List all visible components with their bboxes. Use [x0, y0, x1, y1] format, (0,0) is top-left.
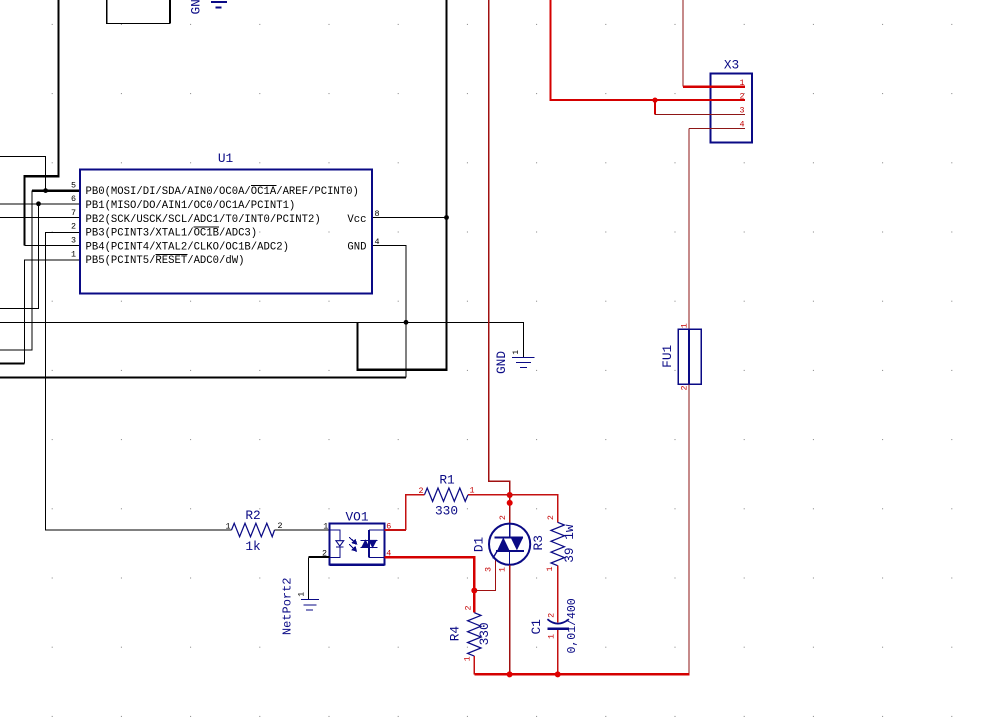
wire thick rail: [0, 376, 406, 378]
wire thick exit left: [0, 362, 24, 364]
junction node X3.2: [652, 98, 657, 103]
svg-text:GND: GND: [189, 0, 204, 15]
wire VO1 pin6: [385, 529, 406, 531]
wire X3 pin1: [682, 0, 684, 87]
resistor R3: [531, 515, 577, 571]
wire X3 pin3: [654, 100, 656, 114]
svg-text:8: 8: [375, 209, 380, 219]
svg-text:GND: GND: [494, 351, 509, 374]
wire U1 Vcc pin: [372, 217, 447, 219]
svg-text:2: 2: [418, 486, 423, 496]
wire D1 anode down: [509, 565, 511, 675]
svg-text:5: 5: [71, 180, 76, 190]
wire pin5 vertical down: [0, 191, 32, 350]
wire fuse to rail: [688, 384, 690, 674]
wire pin3 (PB4): [24, 245, 80, 247]
junction node Vcc: [444, 215, 449, 220]
svg-text:PB0(MOSI/DI/SDA/AIN0/OC0A/OC1A: PB0(MOSI/DI/SDA/AIN0/OC0A/OC1A/AREF/PCIN…: [86, 186, 359, 198]
svg-text:GND: GND: [347, 241, 366, 253]
wire pin2 (PB3) to R2: [46, 232, 232, 530]
wire thick vertical top-left: [24, 0, 58, 246]
svg-text:330: 330: [477, 622, 492, 645]
wire thick right vertical: [357, 0, 446, 370]
svg-text:PB3(PCINT3/XTAL1/OC1B/ADC3): PB3(PCINT3/XTAL1/OC1B/ADC3): [86, 228, 258, 240]
fuse FU1: [660, 323, 701, 390]
svg-text:2: 2: [498, 515, 508, 520]
junction node D1 anode: [507, 500, 513, 506]
capacitor C1: [529, 598, 579, 653]
svg-text:R2: R2: [245, 508, 260, 523]
svg-text:1: 1: [225, 521, 230, 531]
svg-text:3: 3: [71, 236, 76, 246]
resistor R4: [448, 605, 492, 661]
light arrows: [349, 537, 357, 551]
svg-text:1: 1: [470, 486, 475, 496]
svg-text:R4: R4: [448, 626, 463, 642]
wire R4 to rail: [473, 656, 475, 674]
wire U1 GND pin down: [372, 246, 406, 378]
svg-text:1: 1: [680, 323, 690, 328]
svg-text:VO1: VO1: [345, 510, 368, 525]
svg-text:2: 2: [463, 605, 473, 610]
svg-text:7: 7: [71, 208, 76, 218]
svg-text:C1: C1: [529, 619, 544, 635]
junction node C1-rail: [555, 671, 561, 677]
junction node D1-rail: [507, 671, 513, 677]
svg-text:6: 6: [71, 194, 76, 204]
svg-text:3: 3: [484, 567, 494, 572]
wire bottom rail: [474, 673, 689, 675]
svg-text:1: 1: [547, 634, 557, 639]
wire red main vertical: [489, 0, 510, 523]
svg-text:PB2(SCK/USCK/SCL/ADC1/T0/INT0/: PB2(SCK/USCK/SCL/ADC1/T0/INT0/PCINT2): [86, 214, 321, 226]
resistor R2: [225, 508, 329, 554]
junction node PB1: [36, 201, 41, 206]
phototriac inside: [360, 530, 384, 557]
svg-text:1: 1: [513, 350, 521, 355]
svg-text:2: 2: [547, 613, 557, 618]
connector X3: [711, 58, 752, 143]
junction node GND net: [404, 320, 409, 325]
wire GND net horizontal: [0, 322, 523, 357]
svg-text:2: 2: [680, 386, 690, 391]
svg-text:1: 1: [498, 567, 508, 572]
wire VO1 pin4 thick: [385, 557, 475, 613]
svg-text:U1: U1: [218, 151, 234, 166]
triac D1: [472, 515, 531, 572]
svg-text:X3: X3: [724, 58, 739, 73]
wire pin5 branch: [0, 157, 46, 191]
IC U1: [71, 151, 380, 294]
svg-text:R1: R1: [439, 473, 455, 488]
junction node gate-R4: [471, 588, 477, 594]
ground top-left (partial, navy): [211, 2, 227, 8]
NetPort2 ground: [280, 557, 329, 635]
junction node PB0: [43, 188, 48, 193]
svg-text:NetPort2: NetPort2: [280, 577, 294, 635]
svg-text:PB4(PCINT4/XTAL2/CLKO/OC1B/ADC: PB4(PCINT4/XTAL2/CLKO/OC1B/ADC2): [86, 241, 289, 253]
svg-text:R3: R3: [531, 535, 546, 550]
svg-text:4: 4: [375, 237, 380, 247]
svg-text:1k: 1k: [245, 539, 261, 554]
wire X3 pin4 to fuse: [689, 127, 745, 129]
wire pin7 (PB2): [0, 217, 81, 219]
wire C1 down: [557, 630, 559, 675]
wire pin5 thick: [32, 189, 81, 192]
wire pin1 (PB5): [24, 260, 80, 364]
svg-text:39 1w: 39 1w: [562, 524, 577, 563]
svg-text:1: 1: [71, 249, 76, 259]
junction node R1-D1-R3: [507, 492, 513, 498]
svg-text:1: 1: [545, 566, 555, 571]
svg-text:D1: D1: [472, 537, 487, 553]
svg-text:1: 1: [298, 592, 306, 597]
component box top-left (partial): [107, 0, 170, 24]
svg-text:330: 330: [435, 504, 458, 519]
svg-text:1: 1: [463, 656, 473, 661]
resistor R1: [406, 473, 558, 531]
svg-text:PB1(MISO/DO/AIN1/OC0/OC1A/PCIN: PB1(MISO/DO/AIN1/OC0/OC1A/PCINT1): [86, 200, 296, 212]
svg-text:PB5(PCINT5/RESET/ADC0/dW): PB5(PCINT5/RESET/ADC0/dW): [86, 255, 245, 267]
LED inside: [330, 530, 344, 557]
wire pin6 vertical down: [0, 204, 39, 309]
wire pin6 (PB1): [0, 203, 81, 205]
optocoupler VO1: [322, 510, 391, 565]
svg-text:2: 2: [546, 515, 556, 520]
svg-text:1: 1: [323, 522, 328, 532]
wire gate D1: [474, 559, 495, 591]
svg-text:FU1: FU1: [660, 344, 675, 367]
svg-text:0,01/400: 0,01/400: [566, 598, 579, 653]
GND symbol mid: [512, 357, 535, 367]
svg-text:2: 2: [71, 222, 76, 232]
svg-text:2: 2: [278, 521, 283, 531]
wire X3 pin2: [551, 0, 745, 100]
wire R3 to C1: [557, 566, 559, 623]
svg-text:Vcc: Vcc: [347, 214, 366, 226]
